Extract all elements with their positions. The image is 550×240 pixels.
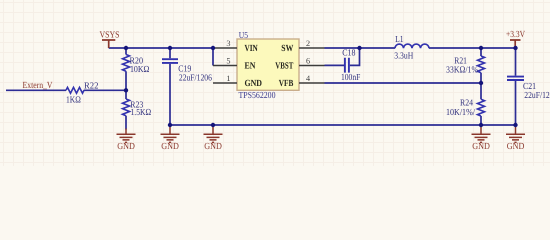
svg-text:33KΩ/1%: 33KΩ/1% — [446, 65, 478, 75]
svg-text:10K/1%/: 10K/1%/ — [446, 107, 475, 117]
svg-text:5: 5 — [226, 57, 230, 66]
svg-text:R22: R22 — [84, 81, 99, 91]
svg-text:SW: SW — [281, 44, 294, 54]
svg-text:GND: GND — [507, 142, 525, 152]
svg-text:L1: L1 — [395, 34, 404, 44]
svg-text:VIN: VIN — [245, 44, 258, 54]
svg-text:GND: GND — [161, 142, 179, 152]
svg-text:TPS562200: TPS562200 — [239, 90, 276, 100]
svg-text:10KΩ: 10KΩ — [130, 64, 150, 74]
svg-text:EN: EN — [245, 62, 256, 72]
svg-text:GND: GND — [245, 79, 263, 89]
svg-text:100nF: 100nF — [341, 72, 360, 82]
svg-text:Extern_V: Extern_V — [23, 81, 53, 91]
svg-text:2: 2 — [306, 39, 310, 48]
svg-text:22uF/1206: 22uF/1206 — [524, 90, 550, 100]
svg-text:22uF/1206: 22uF/1206 — [179, 72, 212, 82]
svg-text:1: 1 — [226, 74, 230, 83]
svg-text:GND: GND — [472, 142, 490, 152]
svg-text:6: 6 — [306, 57, 310, 66]
svg-text:VFB: VFB — [279, 79, 294, 89]
svg-text:VBST: VBST — [275, 62, 294, 72]
svg-text:3: 3 — [226, 39, 230, 48]
svg-text:GND: GND — [204, 142, 222, 152]
svg-text:C18: C18 — [342, 48, 356, 58]
svg-text:4: 4 — [306, 74, 310, 83]
svg-text:1KΩ: 1KΩ — [66, 95, 81, 105]
svg-text:1.5KΩ: 1.5KΩ — [131, 107, 152, 117]
svg-text:+3.3V: +3.3V — [506, 30, 525, 40]
svg-text:3.3uH: 3.3uH — [394, 50, 413, 60]
svg-text:U5: U5 — [239, 30, 249, 40]
svg-text:GND: GND — [117, 142, 135, 152]
svg-text:VSYS: VSYS — [100, 31, 120, 41]
